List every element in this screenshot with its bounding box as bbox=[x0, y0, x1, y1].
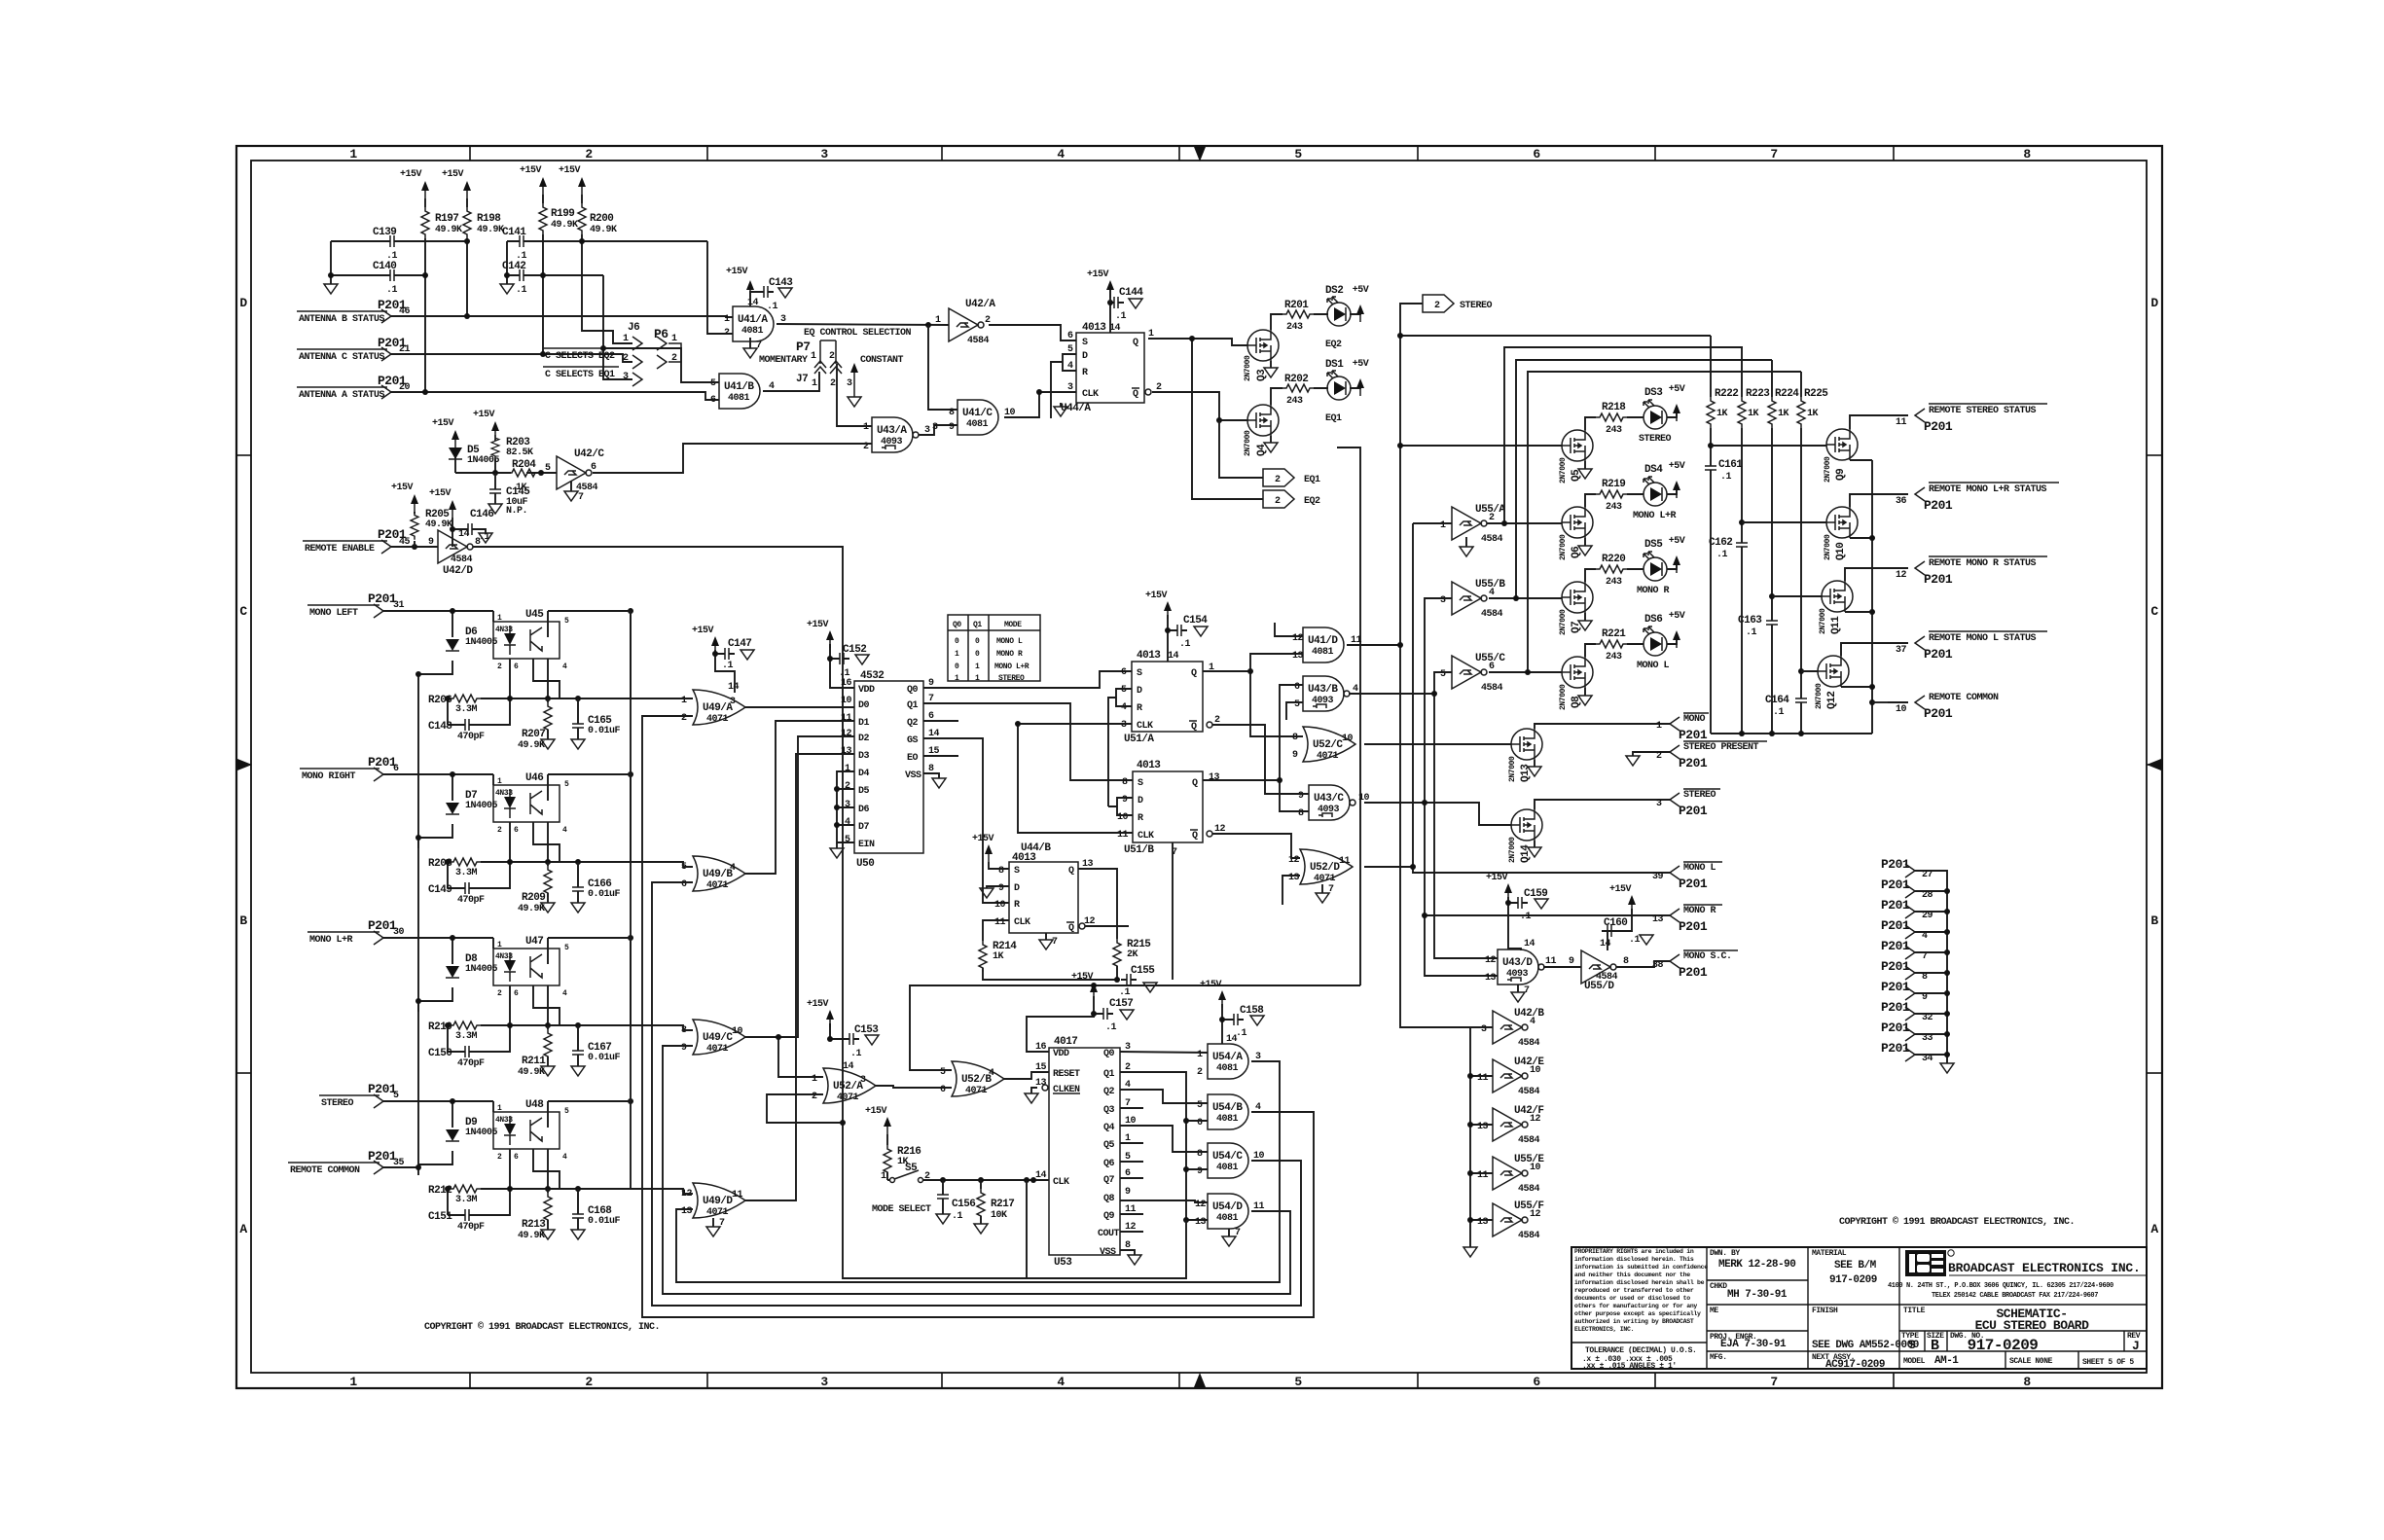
svg-text:R220: R220 bbox=[1602, 554, 1625, 565]
svg-text:AC917-0209: AC917-0209 bbox=[1825, 1359, 1885, 1371]
svg-text:30: 30 bbox=[393, 927, 405, 938]
svg-text:.1: .1 bbox=[1720, 472, 1732, 483]
svg-text:VDD: VDD bbox=[1053, 1049, 1069, 1059]
svg-text:13: 13 bbox=[1195, 1217, 1207, 1228]
svg-text:2: 2 bbox=[1434, 301, 1440, 311]
svg-text:R208: R208 bbox=[428, 858, 452, 870]
svg-text:12: 12 bbox=[841, 729, 852, 739]
svg-text:13: 13 bbox=[1209, 772, 1220, 783]
svg-text:R212: R212 bbox=[428, 1185, 452, 1197]
svg-text:+15V: +15V bbox=[807, 620, 829, 630]
svg-text:U42/C: U42/C bbox=[574, 448, 604, 460]
svg-text:COPYRIGHT © 1991 BROADCAST ELE: COPYRIGHT © 1991 BROADCAST ELECTRONICS, … bbox=[424, 1321, 660, 1333]
svg-text:5: 5 bbox=[1440, 669, 1446, 680]
svg-text:C141: C141 bbox=[502, 227, 526, 238]
svg-text:STEREO PRESENT: STEREO PRESENT bbox=[1683, 742, 1759, 753]
svg-text:C154: C154 bbox=[1183, 615, 1208, 627]
svg-text:P201: P201 bbox=[1679, 877, 1708, 891]
svg-text:Q: Q bbox=[1191, 668, 1197, 679]
svg-text:2: 2 bbox=[1275, 496, 1281, 507]
svg-text:CHKD: CHKD bbox=[1710, 1282, 1727, 1291]
svg-text:4100 N. 24TH ST., P.O.BOX 3606: 4100 N. 24TH ST., P.O.BOX 3606 QUINCY, I… bbox=[1888, 1282, 2113, 1290]
svg-text:Q: Q bbox=[1191, 722, 1197, 733]
svg-text:J: J bbox=[2132, 1339, 2139, 1353]
svg-text:CLK: CLK bbox=[1082, 389, 1099, 400]
svg-text:B: B bbox=[1931, 1338, 1939, 1354]
svg-text:5: 5 bbox=[1294, 147, 1302, 161]
svg-text:1: 1 bbox=[1197, 1050, 1203, 1060]
svg-text:C147: C147 bbox=[728, 638, 751, 650]
svg-text:470pF: 470pF bbox=[457, 1058, 485, 1069]
svg-text:+15V: +15V bbox=[1609, 884, 1632, 895]
svg-text:4081: 4081 bbox=[1216, 1063, 1239, 1074]
svg-text:STEREO: STEREO bbox=[998, 674, 1025, 683]
svg-text:4584: 4584 bbox=[1518, 1231, 1540, 1241]
svg-text:0.01uF: 0.01uF bbox=[588, 726, 621, 736]
svg-text:4: 4 bbox=[1530, 1017, 1535, 1027]
svg-text:reproduced or transferred to o: reproduced or transferred to other bbox=[1574, 1287, 1694, 1294]
svg-text:4584: 4584 bbox=[1518, 1135, 1540, 1146]
svg-text:3: 3 bbox=[730, 697, 736, 707]
svg-text:2: 2 bbox=[585, 1375, 593, 1389]
svg-text:MONO L: MONO L bbox=[1637, 661, 1670, 671]
svg-text:4584: 4584 bbox=[1481, 534, 1503, 545]
svg-text:D: D bbox=[1082, 351, 1088, 362]
svg-text:MONO L: MONO L bbox=[1683, 863, 1716, 874]
svg-text:.xx ± .015 ANGLES ± 1': .xx ± .015 ANGLES ± 1' bbox=[1582, 1362, 1677, 1371]
svg-text:Q5: Q5 bbox=[1571, 469, 1582, 482]
svg-text:ANTENNA B STATUS: ANTENNA B STATUS bbox=[299, 314, 385, 325]
svg-text:EIN: EIN bbox=[858, 840, 875, 850]
svg-text:U41/B: U41/B bbox=[724, 381, 754, 393]
svg-text:1K: 1K bbox=[1807, 409, 1819, 419]
svg-text:0.01uF: 0.01uF bbox=[588, 889, 621, 900]
svg-text:49.9K: 49.9K bbox=[518, 904, 545, 914]
svg-text:31: 31 bbox=[393, 600, 405, 611]
svg-text:GS: GS bbox=[907, 735, 919, 746]
svg-text:4081: 4081 bbox=[1216, 1163, 1239, 1173]
svg-text:14: 14 bbox=[1226, 1034, 1238, 1045]
svg-text:Q0: Q0 bbox=[907, 685, 919, 696]
svg-text:U52/C: U52/C bbox=[1313, 739, 1343, 751]
svg-text:13: 13 bbox=[1292, 651, 1304, 662]
svg-text:STEREO: STEREO bbox=[1460, 301, 1493, 311]
svg-text:C160: C160 bbox=[1604, 917, 1627, 929]
svg-text:3: 3 bbox=[820, 1375, 828, 1389]
svg-text:1: 1 bbox=[812, 378, 817, 389]
svg-text:R221: R221 bbox=[1602, 628, 1626, 640]
svg-text:D6: D6 bbox=[858, 805, 870, 815]
svg-text:C164: C164 bbox=[1765, 695, 1789, 706]
svg-text:U49/D: U49/D bbox=[703, 1196, 733, 1207]
svg-text:4: 4 bbox=[989, 1068, 994, 1079]
svg-text:COUT: COUT bbox=[1098, 1229, 1120, 1239]
svg-text:C157: C157 bbox=[1109, 998, 1133, 1010]
svg-text:U54/B: U54/B bbox=[1212, 1102, 1243, 1114]
svg-text:U51/B: U51/B bbox=[1124, 844, 1154, 856]
svg-text:information disclosed herein.: information disclosed herein. This bbox=[1574, 1256, 1694, 1263]
svg-text:4017: 4017 bbox=[1054, 1036, 1077, 1048]
svg-text:D1: D1 bbox=[858, 718, 870, 729]
svg-text:B: B bbox=[239, 913, 247, 928]
svg-text:+15V: +15V bbox=[1200, 980, 1222, 990]
svg-text:4093: 4093 bbox=[881, 437, 903, 448]
svg-text:2N7000: 2N7000 bbox=[1559, 609, 1568, 635]
svg-text:SEE DWG AM552-0000: SEE DWG AM552-0000 bbox=[1812, 1340, 1919, 1351]
svg-text:R218: R218 bbox=[1602, 402, 1626, 413]
svg-text:3.3M: 3.3M bbox=[455, 1195, 478, 1205]
svg-text:Q2: Q2 bbox=[907, 718, 919, 729]
svg-text:Q: Q bbox=[1192, 831, 1198, 842]
svg-text:3: 3 bbox=[932, 422, 938, 433]
svg-text:5: 5 bbox=[940, 1067, 946, 1078]
svg-text:4013: 4013 bbox=[1012, 852, 1036, 864]
svg-text:P201: P201 bbox=[1679, 919, 1708, 934]
svg-text:U54/A: U54/A bbox=[1212, 1052, 1243, 1063]
svg-text:2: 2 bbox=[1197, 1067, 1203, 1078]
svg-text:12: 12 bbox=[1530, 1209, 1541, 1220]
svg-text:4584: 4584 bbox=[967, 336, 990, 346]
svg-text:3: 3 bbox=[847, 378, 852, 389]
svg-text:6: 6 bbox=[591, 462, 596, 473]
svg-text:3: 3 bbox=[1656, 799, 1662, 809]
svg-text:2K: 2K bbox=[1127, 949, 1138, 960]
svg-text:49.9K: 49.9K bbox=[590, 225, 617, 235]
svg-text:12: 12 bbox=[1288, 855, 1300, 866]
svg-text:ANTENNA A STATUS: ANTENNA A STATUS bbox=[299, 390, 385, 401]
svg-text:REMOTE MONO L+R STATUS: REMOTE MONO L+R STATUS bbox=[1929, 484, 2047, 495]
svg-text:14: 14 bbox=[747, 298, 759, 308]
svg-text:9: 9 bbox=[1569, 956, 1574, 967]
svg-text:D: D bbox=[1014, 883, 1020, 894]
svg-text:6: 6 bbox=[1197, 1118, 1203, 1128]
svg-text:.1: .1 bbox=[1179, 639, 1191, 650]
svg-text:R217: R217 bbox=[991, 1199, 1014, 1210]
svg-text:4013: 4013 bbox=[1082, 322, 1106, 334]
svg-text:+15V: +15V bbox=[1486, 873, 1508, 883]
svg-text:2: 2 bbox=[829, 351, 835, 362]
svg-text:5: 5 bbox=[1197, 1100, 1203, 1111]
svg-text:2N7000: 2N7000 bbox=[1824, 534, 1832, 560]
svg-text:14: 14 bbox=[1168, 651, 1179, 662]
svg-text:8: 8 bbox=[949, 408, 955, 418]
svg-text:1: 1 bbox=[955, 650, 959, 659]
svg-text:Q: Q bbox=[1068, 923, 1074, 934]
svg-text:C162: C162 bbox=[1709, 537, 1732, 549]
svg-text:MONO: MONO bbox=[1683, 714, 1706, 725]
svg-text:C148: C148 bbox=[428, 721, 452, 733]
svg-text:J6: J6 bbox=[628, 322, 639, 334]
svg-text:C150: C150 bbox=[428, 1048, 452, 1059]
svg-text:10: 10 bbox=[1342, 734, 1354, 744]
svg-text:C153: C153 bbox=[854, 1024, 879, 1036]
svg-text:ME: ME bbox=[1710, 1307, 1718, 1315]
svg-text:+15V: +15V bbox=[1145, 591, 1168, 601]
svg-text:2: 2 bbox=[845, 781, 850, 792]
svg-text:EJA 7-30-91: EJA 7-30-91 bbox=[1720, 1339, 1787, 1350]
svg-text:36: 36 bbox=[1896, 496, 1907, 507]
svg-text:C146: C146 bbox=[470, 509, 493, 520]
svg-text:Q3: Q3 bbox=[1103, 1105, 1115, 1116]
svg-text:R199: R199 bbox=[551, 208, 574, 220]
svg-text:470pF: 470pF bbox=[457, 1222, 485, 1233]
svg-text:Q9: Q9 bbox=[1835, 469, 1847, 481]
svg-text:49.9K: 49.9K bbox=[435, 225, 462, 235]
svg-text:RESET: RESET bbox=[1053, 1069, 1080, 1080]
svg-text:917-0209: 917-0209 bbox=[1829, 1274, 1877, 1286]
svg-text:and neither this document nor: and neither this document nor the bbox=[1574, 1271, 1690, 1278]
svg-text:14: 14 bbox=[1600, 939, 1611, 949]
svg-text:.1: .1 bbox=[1105, 1022, 1117, 1033]
svg-text:10: 10 bbox=[841, 696, 852, 706]
svg-text:R200: R200 bbox=[590, 213, 613, 225]
svg-text:S: S bbox=[1014, 866, 1020, 877]
svg-text:R211: R211 bbox=[522, 1056, 546, 1067]
svg-text:+5V: +5V bbox=[1669, 384, 1685, 395]
svg-text:R219: R219 bbox=[1602, 479, 1625, 490]
svg-text:4584: 4584 bbox=[1481, 683, 1503, 694]
svg-text:+15V: +15V bbox=[432, 418, 454, 429]
svg-text:R197: R197 bbox=[435, 213, 458, 225]
svg-text:S: S bbox=[1137, 668, 1142, 679]
svg-text:TITLE: TITLE bbox=[1903, 1307, 1926, 1315]
svg-text:R225: R225 bbox=[1804, 388, 1828, 400]
svg-text:C159: C159 bbox=[1524, 888, 1547, 900]
svg-text:3: 3 bbox=[845, 800, 850, 810]
svg-text:2: 2 bbox=[585, 147, 593, 161]
svg-text:C142: C142 bbox=[502, 261, 525, 272]
svg-text:3.3M: 3.3M bbox=[455, 868, 478, 878]
svg-text:Q6: Q6 bbox=[1103, 1159, 1115, 1169]
svg-text:Q8: Q8 bbox=[1571, 696, 1582, 708]
svg-text:10: 10 bbox=[1117, 812, 1129, 823]
svg-text:CLK: CLK bbox=[1137, 721, 1153, 732]
svg-text:REMOTE MONO L STATUS: REMOTE MONO L STATUS bbox=[1929, 633, 2037, 644]
svg-text:4584: 4584 bbox=[1481, 609, 1503, 620]
svg-text:C SELECTS EQ2: C SELECTS EQ2 bbox=[545, 351, 615, 362]
svg-text:7: 7 bbox=[1770, 147, 1777, 161]
svg-text:3: 3 bbox=[1440, 595, 1446, 606]
svg-text:5: 5 bbox=[1121, 685, 1127, 696]
svg-text:6: 6 bbox=[1489, 662, 1495, 672]
svg-text:MONO L: MONO L bbox=[996, 637, 1023, 646]
svg-text:C: C bbox=[2150, 604, 2158, 619]
svg-text:+15V: +15V bbox=[1071, 972, 1094, 983]
svg-text:11: 11 bbox=[1117, 830, 1129, 841]
svg-text:R207: R207 bbox=[522, 729, 545, 740]
svg-text:MONO L+R: MONO L+R bbox=[309, 935, 353, 946]
svg-text:MATERIAL: MATERIAL bbox=[1812, 1249, 1847, 1258]
svg-text:4071: 4071 bbox=[1317, 751, 1339, 762]
svg-text:U42/A: U42/A bbox=[965, 299, 995, 310]
svg-text:.1: .1 bbox=[1119, 987, 1131, 998]
svg-text:1N4005: 1N4005 bbox=[465, 1128, 498, 1138]
svg-text:DWN. BY: DWN. BY bbox=[1710, 1249, 1740, 1258]
svg-text:13: 13 bbox=[841, 746, 852, 757]
svg-text:49.9K: 49.9K bbox=[477, 225, 504, 235]
svg-text:N.P.: N.P. bbox=[506, 506, 527, 517]
svg-text:2N7000: 2N7000 bbox=[1824, 456, 1832, 483]
svg-text:information is submitted in co: information is submitted in confidence bbox=[1574, 1264, 1708, 1271]
svg-text:6: 6 bbox=[940, 1085, 946, 1095]
svg-text:4584: 4584 bbox=[451, 555, 473, 565]
svg-text:13: 13 bbox=[1477, 1217, 1489, 1228]
svg-text:1: 1 bbox=[975, 663, 980, 671]
svg-text:1: 1 bbox=[681, 696, 687, 706]
svg-text:other purpose except as specif: other purpose except as specifically bbox=[1574, 1310, 1701, 1317]
svg-text:15: 15 bbox=[1035, 1062, 1047, 1073]
svg-text:4093: 4093 bbox=[1506, 969, 1529, 980]
svg-text:others for manufacturing or fo: others for manufacturing or for any bbox=[1574, 1303, 1697, 1309]
svg-text:MONO L+R: MONO L+R bbox=[994, 663, 1029, 671]
svg-text:P201: P201 bbox=[1924, 647, 1953, 662]
svg-text:Q0: Q0 bbox=[1103, 1049, 1115, 1059]
svg-text:1: 1 bbox=[881, 1171, 886, 1182]
svg-text:243: 243 bbox=[1606, 502, 1622, 513]
svg-text:R: R bbox=[1137, 703, 1142, 714]
svg-text:1N4005: 1N4005 bbox=[465, 801, 498, 811]
svg-text:11: 11 bbox=[1477, 1073, 1489, 1084]
svg-text:7: 7 bbox=[578, 492, 584, 503]
svg-text:2N7000: 2N7000 bbox=[1559, 534, 1568, 560]
svg-text:4081: 4081 bbox=[966, 419, 989, 430]
svg-text:1: 1 bbox=[1440, 520, 1446, 531]
svg-text:4081: 4081 bbox=[1216, 1213, 1239, 1224]
svg-text:R222: R222 bbox=[1715, 388, 1738, 400]
svg-text:D: D bbox=[239, 296, 247, 310]
svg-text:Q: Q bbox=[1133, 338, 1138, 348]
svg-text:0: 0 bbox=[975, 637, 980, 646]
svg-text:10: 10 bbox=[994, 900, 1006, 911]
svg-text:4071: 4071 bbox=[837, 1092, 859, 1103]
svg-text:9: 9 bbox=[1122, 795, 1128, 806]
svg-text:9: 9 bbox=[1292, 750, 1298, 761]
svg-text:14: 14 bbox=[843, 1061, 854, 1072]
svg-text:12: 12 bbox=[1485, 955, 1497, 966]
svg-text:1: 1 bbox=[955, 674, 959, 683]
svg-text:R209: R209 bbox=[522, 892, 545, 904]
svg-text:2N7000: 2N7000 bbox=[1815, 683, 1824, 709]
svg-text:MONO L+R: MONO L+R bbox=[1633, 511, 1677, 521]
svg-text:1K: 1K bbox=[1778, 409, 1789, 419]
svg-text:PROPRIETARY RIGHTS are include: PROPRIETARY RIGHTS are included in bbox=[1574, 1248, 1694, 1255]
svg-text:MODE: MODE bbox=[1004, 621, 1022, 629]
svg-text:3: 3 bbox=[623, 372, 629, 382]
svg-text:R210: R210 bbox=[428, 1021, 452, 1033]
svg-text:U49/C: U49/C bbox=[703, 1032, 733, 1044]
svg-text:2: 2 bbox=[681, 713, 687, 724]
svg-text:S: S bbox=[1908, 1338, 1916, 1352]
svg-text:authorized in writing by BROAD: authorized in writing by BROADCAST bbox=[1574, 1318, 1694, 1325]
svg-text:TOLERANCE (DECIMAL) U.O.S.: TOLERANCE (DECIMAL) U.O.S. bbox=[1585, 1346, 1696, 1355]
svg-text:CLK: CLK bbox=[1053, 1177, 1069, 1188]
svg-text:3: 3 bbox=[860, 1075, 866, 1086]
svg-text:243: 243 bbox=[1286, 322, 1303, 333]
svg-text:COPYRIGHT © 1991 BROADCAST ELE: COPYRIGHT © 1991 BROADCAST ELECTRONICS, … bbox=[1839, 1216, 2075, 1228]
svg-text:P201: P201 bbox=[1924, 498, 1953, 513]
svg-text:8: 8 bbox=[998, 866, 1004, 877]
svg-text:Q7: Q7 bbox=[1103, 1175, 1115, 1186]
svg-text:documents or used or disclosed: documents or used or disclosed to bbox=[1574, 1295, 1690, 1302]
svg-text:4: 4 bbox=[845, 817, 850, 828]
svg-text:7: 7 bbox=[1052, 937, 1058, 948]
svg-text:D5: D5 bbox=[858, 786, 870, 797]
svg-text:ECU STEREO BOARD: ECU STEREO BOARD bbox=[1975, 1318, 2090, 1333]
svg-text:9: 9 bbox=[949, 422, 955, 433]
svg-text:Q1: Q1 bbox=[973, 621, 982, 629]
svg-text:D7: D7 bbox=[858, 822, 870, 833]
svg-text:0: 0 bbox=[955, 663, 959, 671]
svg-text:D: D bbox=[2150, 296, 2158, 310]
svg-text:U43/B: U43/B bbox=[1308, 684, 1338, 696]
svg-text:11: 11 bbox=[1545, 956, 1557, 967]
svg-text:.1: .1 bbox=[722, 661, 734, 671]
svg-text:6: 6 bbox=[681, 879, 687, 890]
svg-text:+15V: +15V bbox=[559, 165, 581, 176]
svg-text:14: 14 bbox=[1524, 939, 1535, 949]
svg-text:D3: D3 bbox=[858, 751, 870, 762]
svg-text:8: 8 bbox=[2023, 147, 2031, 161]
svg-text:REMOTE MONO R STATUS: REMOTE MONO R STATUS bbox=[1929, 558, 2037, 569]
svg-text:13: 13 bbox=[1652, 914, 1664, 925]
svg-text:.1: .1 bbox=[850, 1049, 862, 1059]
svg-text:5: 5 bbox=[1294, 699, 1300, 710]
svg-text:12: 12 bbox=[1195, 1200, 1207, 1210]
svg-text:.1: .1 bbox=[1236, 1028, 1247, 1039]
svg-text:1K: 1K bbox=[993, 951, 1004, 962]
svg-text:C149: C149 bbox=[428, 884, 452, 896]
svg-text:+15V: +15V bbox=[520, 165, 542, 176]
svg-text:Q2: Q2 bbox=[1103, 1087, 1115, 1097]
svg-text:2N7000: 2N7000 bbox=[1244, 355, 1252, 381]
svg-text:8: 8 bbox=[1298, 808, 1304, 819]
svg-text:1: 1 bbox=[1656, 721, 1662, 732]
svg-text:6: 6 bbox=[1121, 667, 1127, 678]
svg-text:MONO R: MONO R bbox=[1637, 586, 1670, 596]
svg-text:2: 2 bbox=[1489, 513, 1495, 523]
svg-text:STEREO: STEREO bbox=[1683, 790, 1716, 801]
svg-text:A: A bbox=[239, 1222, 247, 1236]
svg-text:12: 12 bbox=[1896, 570, 1907, 581]
svg-text:+15V: +15V bbox=[473, 410, 495, 420]
svg-text:0: 0 bbox=[975, 650, 980, 659]
svg-text:R213: R213 bbox=[522, 1219, 546, 1231]
svg-text:+15V: +15V bbox=[972, 834, 994, 844]
svg-text:11: 11 bbox=[1896, 417, 1907, 428]
svg-text:7: 7 bbox=[1524, 985, 1530, 996]
svg-text:82.5K: 82.5K bbox=[506, 448, 533, 458]
svg-text:P201: P201 bbox=[1679, 756, 1708, 770]
svg-text:S: S bbox=[1138, 778, 1143, 789]
svg-text:Q11: Q11 bbox=[1830, 616, 1842, 634]
svg-text:.1: .1 bbox=[1746, 627, 1757, 638]
svg-text:2: 2 bbox=[623, 353, 629, 364]
svg-text:U51/A: U51/A bbox=[1124, 734, 1154, 745]
svg-text:4081: 4081 bbox=[1216, 1114, 1239, 1125]
svg-text:DS5: DS5 bbox=[1644, 539, 1663, 551]
svg-text:7: 7 bbox=[1235, 1228, 1241, 1238]
svg-text:MODE SELECT: MODE SELECT bbox=[872, 1204, 931, 1215]
svg-text:+15V: +15V bbox=[865, 1106, 887, 1117]
svg-text:10: 10 bbox=[732, 1026, 743, 1037]
svg-text:MERK 12-28-90: MERK 12-28-90 bbox=[1718, 1259, 1795, 1271]
svg-text:MOMENTARY: MOMENTARY bbox=[759, 355, 808, 366]
svg-text:5: 5 bbox=[845, 835, 850, 845]
svg-text:+15V: +15V bbox=[807, 999, 829, 1010]
svg-text:0.01uF: 0.01uF bbox=[588, 1216, 621, 1227]
svg-text:P201: P201 bbox=[1679, 728, 1708, 742]
svg-text:+15V: +15V bbox=[391, 483, 414, 493]
